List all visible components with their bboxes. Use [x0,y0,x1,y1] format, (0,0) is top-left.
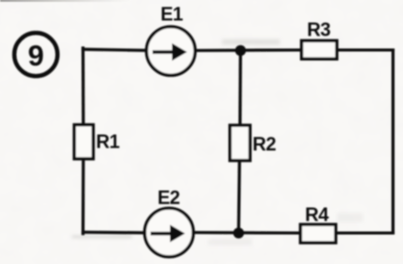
svg-text:R4: R4 [305,205,329,226]
svg-text:R3: R3 [307,20,330,41]
svg-text:E2: E2 [158,188,180,209]
svg-text:9: 9 [28,40,44,72]
svg-text:R1: R1 [96,132,120,153]
svg-text:R2: R2 [253,135,276,156]
svg-text:E1: E1 [161,5,184,26]
